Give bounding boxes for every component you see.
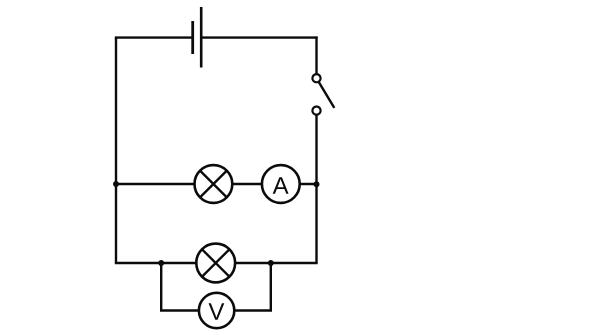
wire bottom row: lamp L2 to right rail xyxy=(235,262,318,264)
wire middle row: ammeter to right rail xyxy=(300,183,317,185)
wire top right (battery to right rail) xyxy=(201,36,318,38)
battery cell long plate (positive) xyxy=(200,7,203,68)
switch contact circle top xyxy=(312,74,320,82)
wire top left (rail to battery) xyxy=(115,36,193,38)
wire voltmeter branch right (across and up) xyxy=(234,263,271,311)
node junction dot left-middle xyxy=(113,181,119,187)
wire left rail xyxy=(115,38,117,263)
lamp L1 (circle with cross) xyxy=(195,165,233,203)
voltmeter V1 xyxy=(199,293,234,328)
wire middle row: lamp L1 to ammeter xyxy=(232,183,262,185)
lamp L2 (circle with cross) xyxy=(196,244,235,283)
wire voltmeter branch left (down and across) xyxy=(161,263,199,311)
switch blade xyxy=(317,78,335,108)
wire right rail lower (switch to bottom) xyxy=(315,115,317,263)
ammeter A1 xyxy=(262,165,300,203)
node junction dot right-middle xyxy=(314,181,320,187)
wire middle row: rail to lamp L1 xyxy=(116,183,195,185)
switch contact circle bottom xyxy=(312,107,320,115)
node junction dot bottom-left xyxy=(158,260,164,266)
wire right rail upper (to switch) xyxy=(315,36,317,74)
battery cell short plate (negative) xyxy=(191,21,194,54)
node junction dot bottom-right xyxy=(268,260,274,266)
wire bottom row: left rail to lamp L2 xyxy=(115,262,197,264)
